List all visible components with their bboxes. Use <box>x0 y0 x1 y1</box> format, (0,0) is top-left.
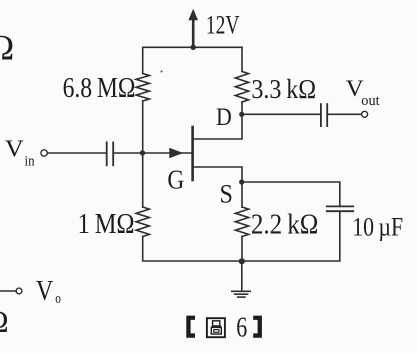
svg-text:2.2 kΩ: 2.2 kΩ <box>251 210 319 241</box>
svg-text:Ω: Ω <box>0 304 9 339</box>
input terminal Vin <box>41 150 47 156</box>
wire: top rail to resistor R1 <box>142 47 144 73</box>
resistor R4 2.2 kohm <box>235 207 248 237</box>
svg-text:out: out <box>361 93 380 109</box>
svg-text:10 µF: 10 µF <box>352 213 403 242</box>
wire: R2 bottom to ground rail <box>143 237 242 262</box>
svg-text:G: G <box>167 164 184 194</box>
power supply 12V arrow <box>188 9 198 48</box>
resistor R2 1 Mohm <box>136 207 149 237</box>
transistor Q1 source lead <box>193 167 242 182</box>
wire: node S to resistor R4 <box>241 182 243 207</box>
capacitor C2 output coupling <box>321 104 327 126</box>
label Vout <box>346 76 381 109</box>
resistor R3 3.3 kohm <box>235 72 248 103</box>
wire: R4 bottom to ground junction <box>241 237 243 262</box>
capacitor C3 10uF bypass <box>327 206 353 211</box>
node S junction <box>239 179 244 184</box>
capacitor C1 input coupling <box>107 142 114 165</box>
output terminal Vo (partial, adjacent figure) <box>0 288 22 294</box>
output terminal Vout <box>362 111 368 117</box>
label Vin <box>5 137 35 170</box>
wire: C3 bottom to ground rail <box>242 211 340 261</box>
svg-text:Ω: Ω <box>0 28 14 68</box>
svg-text:6: 6 <box>236 312 247 344</box>
wire: R1 bottom to gate node <box>142 101 144 153</box>
ground <box>232 261 250 297</box>
wire: R3 bottom to drain node D <box>241 102 243 114</box>
wire: top rail to resistor R3 <box>241 47 243 71</box>
svg-text:6.8 MΩ: 6.8 MΩ <box>63 73 136 104</box>
svg-text:V: V <box>5 137 24 163</box>
svg-text:3.3 kΩ: 3.3 kΩ <box>251 74 316 104</box>
wire: top supply rail <box>143 46 242 48</box>
wire: C1 to gate node <box>113 152 143 154</box>
caption figure 6 bracket right <box>253 316 262 338</box>
transistor Q1 JFET gate bar <box>191 127 194 180</box>
node D junction <box>239 112 244 117</box>
svg-text:in: in <box>25 153 35 169</box>
svg-text:12V: 12V <box>206 10 240 39</box>
caption figure 6 character tu (drawing) <box>207 318 225 337</box>
ink speck <box>161 71 163 73</box>
wire: Vin terminal to capacitor C1 <box>48 152 107 154</box>
junction at ground rail <box>239 258 245 264</box>
wire: node D to capacitor C2 <box>242 113 321 115</box>
svg-text:V: V <box>36 276 53 307</box>
svg-text:1 MΩ: 1 MΩ <box>78 209 135 240</box>
wire: node S to capacitor C3 branch <box>242 182 340 206</box>
caption figure 6 bracket left <box>186 316 195 338</box>
label Vo (partial, adjacent figure) <box>36 276 61 307</box>
junction at gate node <box>140 150 145 155</box>
resistor R1 6.8 Mohm <box>136 74 149 102</box>
svg-text:S: S <box>220 180 233 209</box>
wire: C2 to Vout terminal <box>327 113 361 115</box>
svg-text:D: D <box>216 104 232 131</box>
svg-text:o: o <box>55 291 61 307</box>
wire: gate node to resistor R2 <box>142 153 144 207</box>
junction at 12V supply node <box>191 45 196 50</box>
transistor Q1 drain lead <box>193 114 242 139</box>
transistor Q1 gate lead with arrow <box>143 148 193 158</box>
